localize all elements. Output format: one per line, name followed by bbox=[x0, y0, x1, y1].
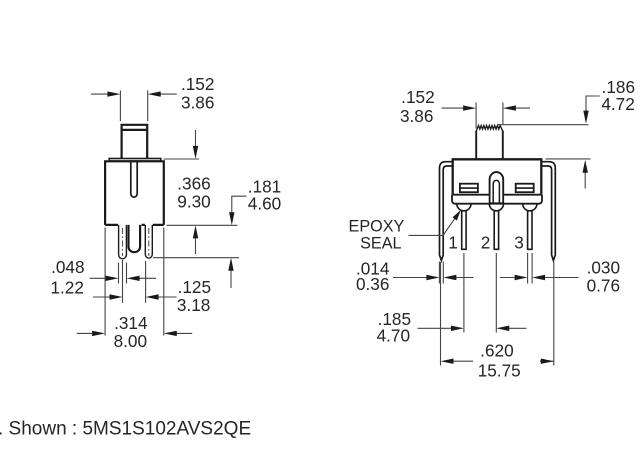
right view: pin 3 bbox=[523, 204, 537, 249]
right view: actuator knurled top edge bbox=[476, 125, 503, 131]
dim .185/4.70: arrowheads bbox=[451, 326, 509, 331]
svg-text:.152: .152 bbox=[401, 87, 434, 107]
svg-text:.048: .048 bbox=[51, 257, 84, 277]
left view: plunger button bbox=[122, 125, 148, 159]
right view: body outline bbox=[453, 159, 542, 194]
dim .030/0.76: arrowheads bbox=[515, 275, 546, 280]
right view: center dome bbox=[490, 172, 504, 195]
dim .181/4.60: bracket and top arrow bbox=[232, 196, 247, 213]
svg-text:3: 3 bbox=[514, 233, 524, 253]
svg-text:3.86: 3.86 bbox=[400, 106, 433, 126]
dim .181/4.60: pin-tip extension line bbox=[153, 257, 239, 259]
dim .185/4.70: dimension lines bbox=[418, 327, 527, 329]
left view: plunger cap line bbox=[122, 129, 148, 131]
dim .125/3.18: dimension lines bbox=[93, 296, 177, 298]
dim .125/3.18: arrowheads bbox=[110, 294, 159, 299]
dim .366/9.30: top extension line bbox=[164, 158, 200, 160]
dim .030/0.76: dimension lines bbox=[500, 277, 579, 279]
dim .314/8.00: arrowheads bbox=[92, 331, 177, 336]
svg-text:SEAL: SEAL bbox=[360, 235, 401, 253]
right view: right contact window bbox=[516, 184, 534, 193]
dim .186/4.72: extension line from body top bbox=[546, 158, 591, 160]
left view: flange bbox=[109, 159, 161, 162]
svg-text:3.86: 3.86 bbox=[181, 93, 214, 113]
dim .181/4.60: bottom arrow bbox=[230, 269, 232, 288]
right view: dome notch bottom bbox=[490, 202, 504, 204]
dim .366/9.30: top arrow bbox=[195, 130, 197, 147]
dim .125/3.18: extension lines bbox=[123, 260, 146, 303]
dim .152/3.86 right: dimension lines bbox=[442, 107, 531, 109]
dim .314/8.00: extension lines bbox=[105, 228, 164, 336]
right view: body inner bottom line with center notch bbox=[453, 195, 542, 203]
dim .152/3.86 left: dimension lines bbox=[91, 93, 177, 95]
right view: actuator sides bbox=[476, 131, 503, 159]
dim .186/4.72: extension line from knurl top bbox=[497, 124, 589, 126]
label EPOXY SEAL leader arrowhead bbox=[453, 210, 461, 221]
dim .314/8.00: dimension lines bbox=[77, 332, 193, 334]
dim .152/3.86 right: arrowheads bbox=[463, 105, 516, 110]
right view: pin 1 bbox=[457, 204, 471, 249]
label EPOXY SEAL leader line bbox=[409, 213, 459, 235]
dim .152/3.86 left: arrowheads bbox=[107, 91, 160, 96]
svg-text:8.00: 8.00 bbox=[114, 331, 147, 351]
dim .014/0.36: extension lines bbox=[439, 262, 443, 284]
dim .014/0.36: dimension lines bbox=[393, 277, 474, 279]
dim .152/3.86 right: extension lines bbox=[476, 103, 503, 129]
dim .152/3.86 left: extension lines bbox=[120, 90, 147, 121]
svg-text:9.30: 9.30 bbox=[177, 191, 210, 211]
left view: pin 1 centerline bbox=[122, 228, 124, 256]
svg-text:EPOXY: EPOXY bbox=[349, 217, 405, 235]
svg-text:2: 2 bbox=[481, 233, 491, 253]
dim .186/4.72: bottom arrow bbox=[584, 171, 586, 189]
svg-text:4.72: 4.72 bbox=[601, 94, 634, 114]
left view: pin 1 outline bbox=[119, 225, 127, 259]
dim .030/0.76: extension lines bbox=[528, 253, 533, 284]
dim .185/4.70: extension lines bbox=[464, 253, 496, 333]
right view: right mounting bracket bbox=[542, 162, 556, 261]
right view: pin 2 bbox=[489, 204, 503, 249]
right view: left contact window bbox=[460, 184, 478, 193]
svg-text:4.70: 4.70 bbox=[377, 325, 410, 345]
left view: interior slot bbox=[131, 161, 137, 197]
right view: left mounting bracket bbox=[440, 162, 453, 261]
dim .620/15.75: extension lines bbox=[441, 262, 554, 366]
left view: pin 2 (center, wide) outline bbox=[129, 225, 141, 252]
dim .048/1.22: extension lines bbox=[119, 263, 127, 284]
svg-text:4.60: 4.60 bbox=[248, 194, 281, 214]
svg-text:1: 1 bbox=[448, 233, 458, 253]
dim .620/15.75: dimension lines bbox=[454, 360, 554, 362]
left view: body bbox=[105, 161, 164, 225]
dim .048/1.22: arrowheads bbox=[106, 276, 140, 281]
svg-text:.152: .152 bbox=[181, 74, 214, 94]
left view: pin 3 centerline bbox=[148, 228, 150, 256]
svg-text:.620: .620 bbox=[480, 341, 513, 361]
dim .366/9.30: bottom extension line bbox=[167, 224, 238, 226]
dim .048/1.22: dimension lines bbox=[90, 277, 157, 279]
dim .014/0.36: arrowheads bbox=[426, 275, 456, 280]
dim .366/9.30: bottom arrow bbox=[195, 237, 197, 254]
left view: body bottom edge segments bbox=[105, 224, 164, 226]
right view: epoxy seal band bbox=[452, 195, 542, 204]
right view: dome inner slot bbox=[493, 180, 499, 203]
dim .186/4.72: bracket and top arrow bbox=[586, 96, 600, 111]
svg-text:. Shown : 5MS1S102AVS2QE: . Shown : 5MS1S102AVS2QE bbox=[0, 419, 251, 440]
svg-text:1.22: 1.22 bbox=[50, 277, 83, 297]
svg-text:.030: .030 bbox=[587, 258, 620, 278]
svg-text:15.75: 15.75 bbox=[478, 361, 521, 381]
left view: pin 3 outline bbox=[145, 225, 152, 258]
svg-text:0.36: 0.36 bbox=[356, 274, 389, 294]
dim .620/15.75: arrowheads bbox=[441, 359, 554, 364]
svg-text:0.76: 0.76 bbox=[587, 276, 620, 296]
svg-text:3.18: 3.18 bbox=[177, 295, 210, 315]
